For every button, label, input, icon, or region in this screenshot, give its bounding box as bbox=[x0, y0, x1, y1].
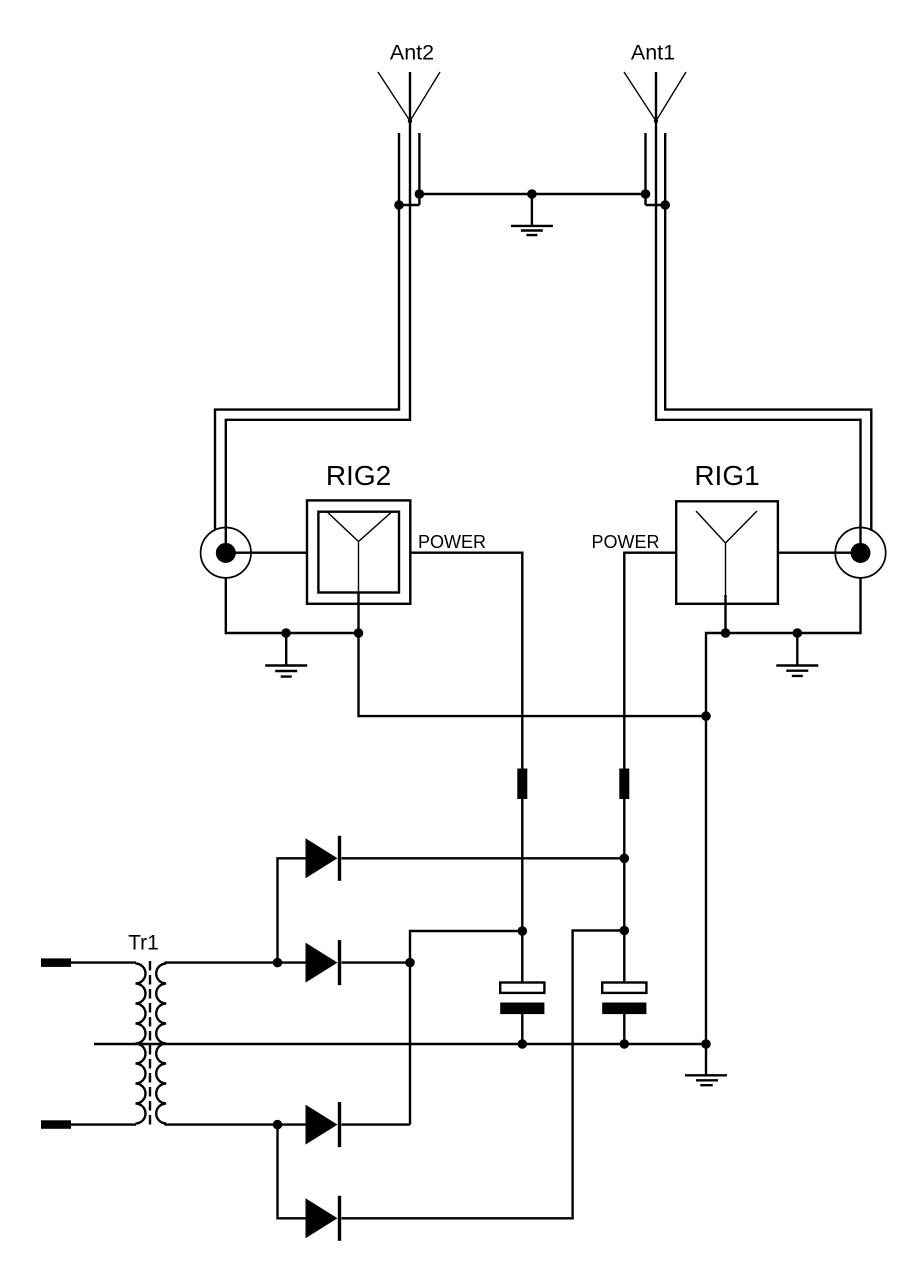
svg-text:RIG2: RIG2 bbox=[326, 460, 391, 491]
svg-text:POWER: POWER bbox=[592, 532, 660, 552]
svg-text:RIG1: RIG1 bbox=[694, 460, 759, 491]
svg-text:Tr1: Tr1 bbox=[128, 932, 159, 955]
svg-text:Ant1: Ant1 bbox=[631, 41, 675, 65]
svg-text:Ant2: Ant2 bbox=[390, 41, 434, 65]
svg-text:POWER: POWER bbox=[418, 532, 486, 552]
